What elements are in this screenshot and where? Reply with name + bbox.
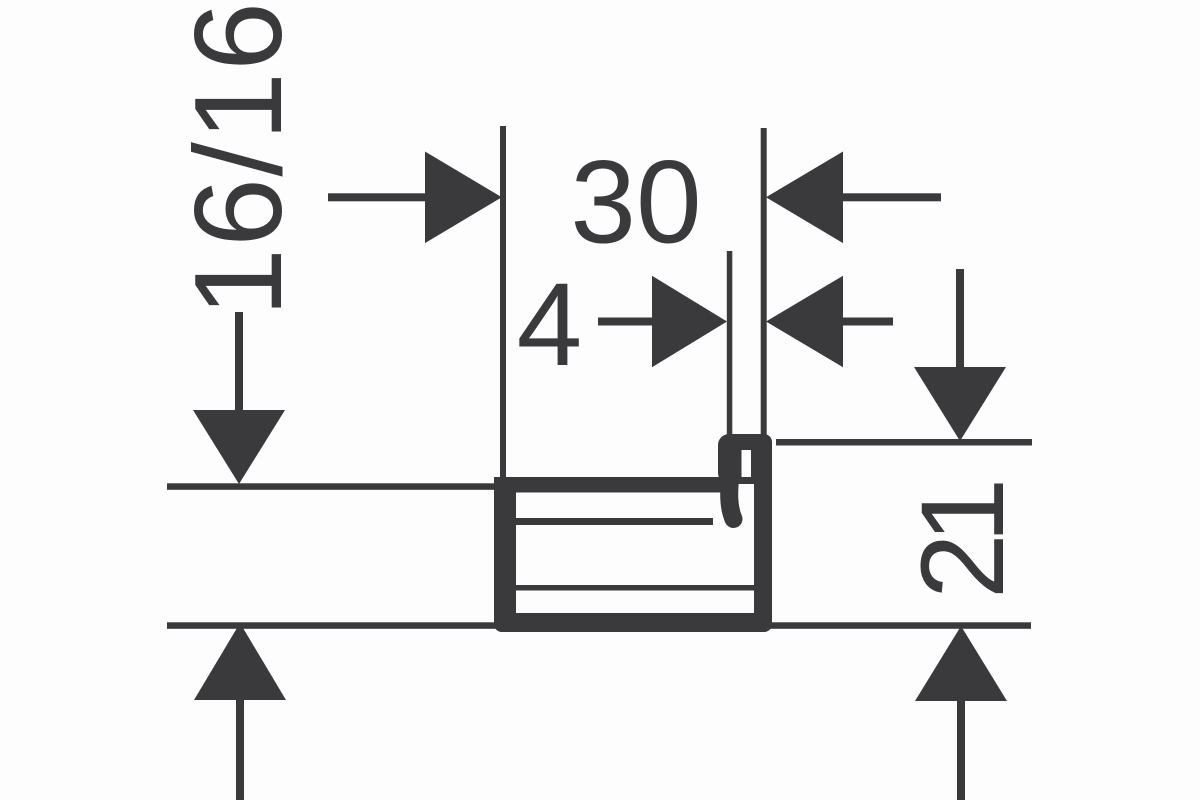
arrow A8 up-pointing (21-dim bottom right) <box>915 626 1007 701</box>
profile top flange <box>494 477 731 493</box>
profile hook notch (white slot) <box>742 450 752 477</box>
arrow A2 left-pointing (30-dim right) <box>766 152 843 244</box>
dimension extension line L1 (left, 30-dim) <box>500 126 506 480</box>
svg-text:16/16: 16/16 <box>170 1 308 317</box>
arrow A4 left-pointing (4-dim right) <box>766 276 843 368</box>
arrow A7 tail <box>956 269 964 371</box>
profile hook head <box>718 434 772 484</box>
arrow A1 tail <box>328 193 428 201</box>
arrow A6 up-pointing (16-dim bottom left) <box>194 623 286 700</box>
arrow A5 down-pointing (16-dim top left) <box>193 410 285 484</box>
svg-text:4: 4 <box>517 259 583 391</box>
arrow A3 tail <box>598 318 656 326</box>
arrow A5 tail <box>235 312 243 414</box>
arrow A3 right-pointing (4-dim left) <box>652 276 727 368</box>
profile left wall <box>494 477 516 632</box>
arrow A7 down-pointing (21-dim top right) <box>914 367 1006 441</box>
arrow A1 right-pointing (30-dim left) <box>425 152 502 244</box>
svg-text:30: 30 <box>570 137 701 269</box>
dimension extension line L2 (4-dim left) <box>727 251 733 438</box>
dimension extension line L3 (right, 30-dim / 4-dim) <box>761 128 767 438</box>
reference line H3 (right, top of hook) <box>776 439 1032 446</box>
profile right wall <box>754 434 772 632</box>
svg-text:21: 21 <box>897 483 1029 599</box>
profile curl lip <box>729 468 733 519</box>
arrow A2 tail <box>841 193 941 201</box>
profile inner slot line (upper) <box>516 518 713 525</box>
reference line H2 (long bottom line) <box>167 622 1031 629</box>
reference line H1 (left, top of profile) <box>167 483 497 490</box>
profile bottom wall <box>494 613 772 632</box>
arrow A4 tail <box>841 318 893 326</box>
arrow A8 tail <box>957 697 965 800</box>
profile inner line (lower) <box>514 585 754 591</box>
arrow A6 tail <box>236 696 244 800</box>
